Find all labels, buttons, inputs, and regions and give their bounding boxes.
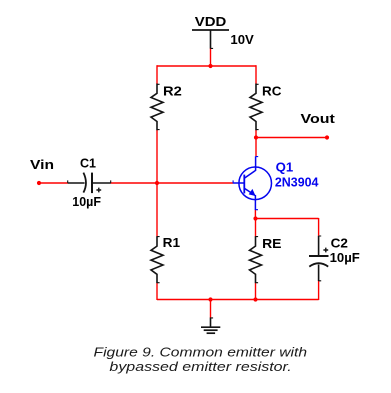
svg-text:Q1: Q1	[276, 160, 294, 175]
svg-text:R2: R2	[163, 83, 182, 98]
svg-text:RC: RC	[262, 83, 282, 98]
svg-text:Figure 9. Common emitter with: Figure 9. Common emitter with	[94, 345, 308, 360]
svg-text:R1: R1	[163, 235, 180, 250]
svg-text:2N3904: 2N3904	[275, 174, 319, 189]
svg-text:VDD: VDD	[195, 14, 227, 29]
svg-text:Vout: Vout	[301, 111, 336, 126]
svg-text:Vin: Vin	[30, 157, 54, 172]
svg-text:10µF: 10µF	[72, 194, 101, 209]
svg-text:10V: 10V	[230, 32, 254, 47]
svg-text:C1: C1	[80, 155, 96, 170]
svg-text:C2: C2	[331, 236, 348, 251]
svg-text:RE: RE	[262, 236, 282, 251]
svg-text:bypassed emitter resistor.: bypassed emitter resistor.	[109, 359, 291, 374]
svg-text:10µF: 10µF	[330, 250, 360, 265]
